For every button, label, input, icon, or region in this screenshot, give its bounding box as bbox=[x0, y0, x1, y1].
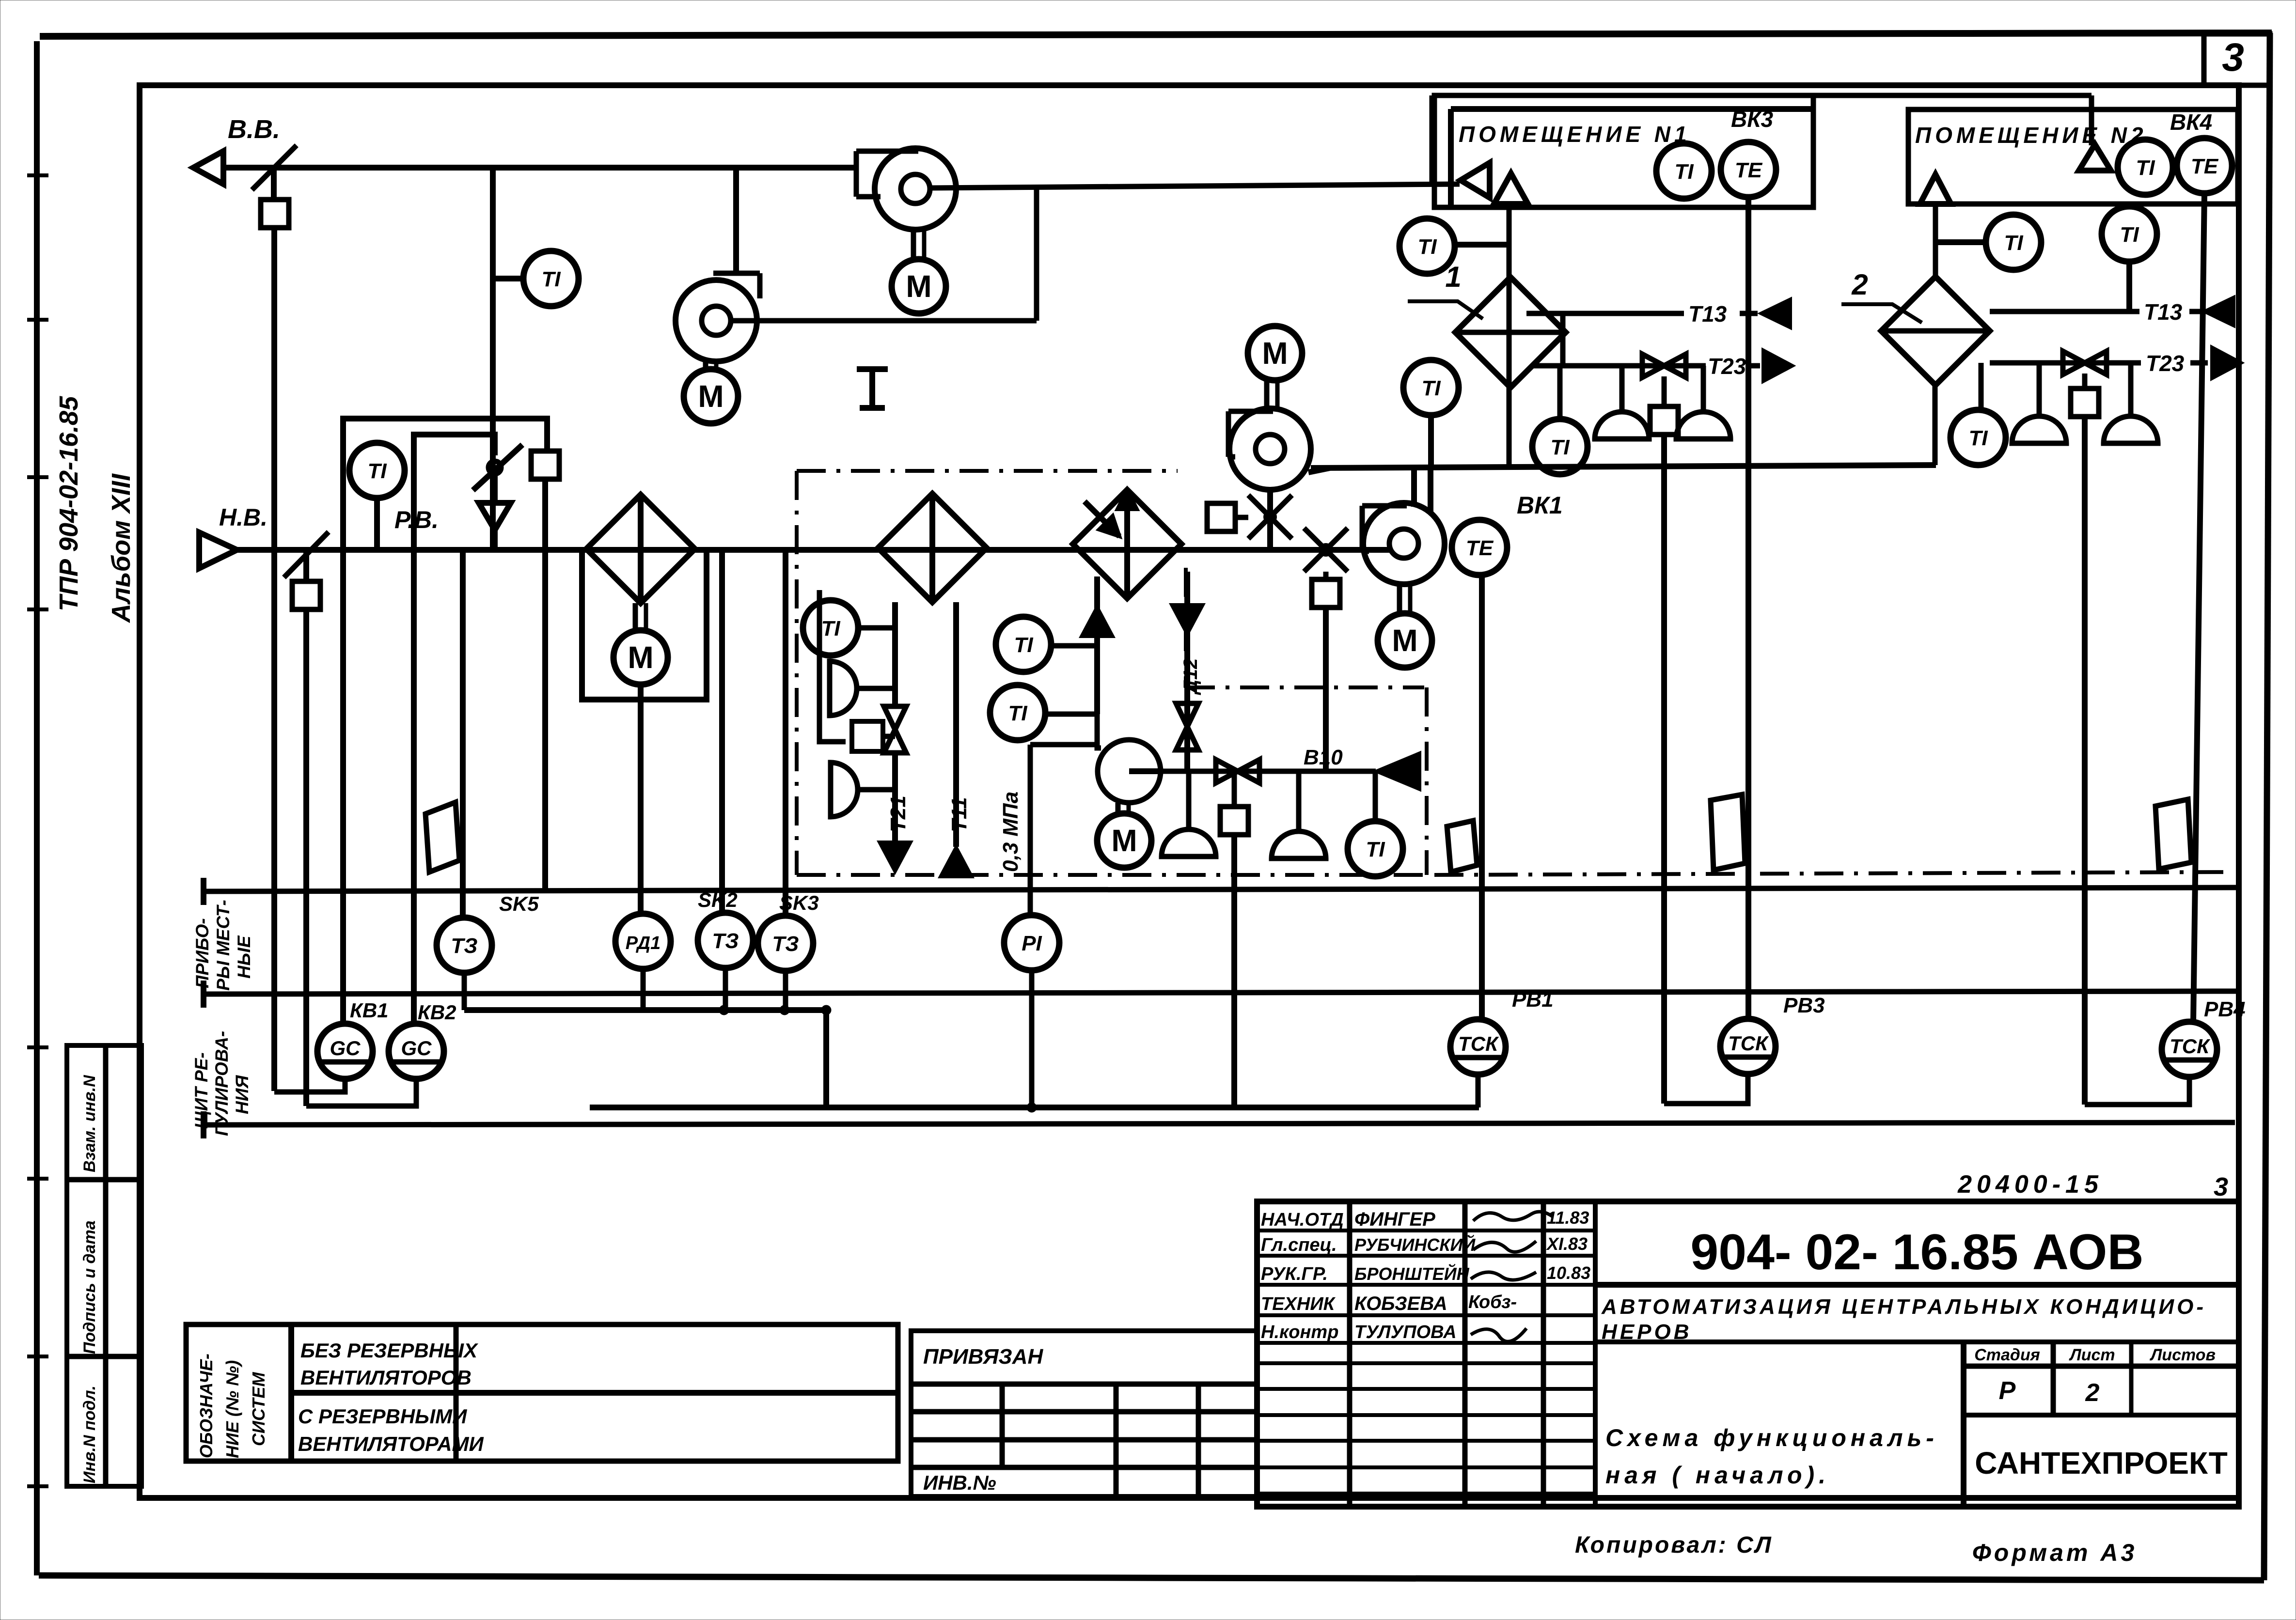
wire RV3 hookup bbox=[1664, 1074, 1748, 1104]
motor M VK1 bbox=[1397, 584, 1402, 612]
svg-text:НИЕ (№ №): НИЕ (№ №) bbox=[222, 1360, 242, 1458]
damper N.V. bbox=[284, 532, 329, 577]
svg-text:ТI: ТI bbox=[2120, 223, 2139, 247]
wire TE N1 down bbox=[1746, 197, 1751, 1019]
arrow V.V. left bbox=[193, 151, 223, 184]
svg-text:С РЕЗЕРВНЫМИ: С РЕЗЕРВНЫМИ bbox=[298, 1405, 467, 1428]
wire V.V. duct bbox=[223, 165, 859, 171]
svg-text:Формат А3: Формат А3 bbox=[1972, 1539, 2138, 1566]
rail instruments top bbox=[203, 888, 2236, 891]
svg-text:GC: GC bbox=[401, 1037, 432, 1059]
wire T13 line N1 bbox=[1526, 311, 1684, 316]
triangle R.V. down bbox=[479, 503, 511, 530]
fan V.V. no.2 bbox=[676, 280, 757, 361]
valve D12 bbox=[1176, 703, 1198, 727]
actuator box T23 N1 bbox=[1650, 406, 1678, 435]
horn B10 bbox=[1376, 753, 1420, 790]
wire RV1 hookup bbox=[1476, 1075, 1481, 1107]
linkage frame B bbox=[414, 435, 495, 550]
sensor TI under T23 N1 bbox=[1557, 366, 1563, 420]
arrow T13 N2 bbox=[2204, 297, 2234, 326]
rail instruments mid bbox=[203, 991, 2236, 994]
bell 2 N2 bbox=[2128, 363, 2134, 416]
svg-text:3: 3 bbox=[2214, 1172, 2228, 1201]
filter box bbox=[582, 550, 707, 700]
svg-text:Гл.спец.: Гл.спец. bbox=[1261, 1235, 1337, 1255]
sensor TE room N1 bbox=[1721, 142, 1776, 197]
svg-text:ТЕХНИК: ТЕХНИК bbox=[1261, 1294, 1336, 1314]
sensor TI cooler top bbox=[996, 617, 1051, 672]
actuator box X recirc bbox=[1207, 503, 1235, 531]
svg-text:ТI: ТI bbox=[2136, 156, 2155, 180]
svg-text:М: М bbox=[1111, 823, 1137, 858]
sensor TI B10 bbox=[1373, 771, 1378, 822]
sensor TI cooler in bbox=[990, 685, 1045, 740]
svg-text:В10: В10 bbox=[1304, 746, 1343, 769]
sensor TI on N.V. bbox=[349, 443, 405, 498]
svg-text:SK5: SK5 bbox=[499, 892, 539, 915]
svg-text:ТI: ТI bbox=[1417, 235, 1437, 259]
fan recirc bbox=[1229, 408, 1311, 490]
svg-text:SK2: SK2 bbox=[698, 888, 738, 911]
sensor GC KV1 bbox=[317, 1024, 373, 1079]
svg-text:Т21: Т21 bbox=[886, 795, 910, 832]
damper X recirc bbox=[1248, 495, 1292, 539]
motor M filter bbox=[633, 603, 638, 630]
grille triangle room N1 exhaust bbox=[1461, 163, 1490, 198]
sensor T3 SK5 bbox=[437, 918, 492, 973]
svg-text:Т11: Т11 bbox=[947, 797, 971, 832]
actuator box T23 N2 bbox=[2071, 389, 2099, 417]
sensor TCK RV1 bbox=[1450, 1019, 1506, 1075]
svg-text:РУК.ГР.: РУК.ГР. bbox=[1261, 1264, 1328, 1284]
svg-text:ТI: ТI bbox=[1421, 376, 1441, 400]
panel dashdot above rail bbox=[1434, 872, 2234, 875]
bell 2 N1 bbox=[1701, 366, 1706, 412]
svg-text:ТПР 904-02-16.85: ТПР 904-02-16.85 bbox=[54, 396, 83, 611]
sensor GC KV2 bbox=[389, 1024, 444, 1079]
svg-text:КОБЗЕВА: КОБЗЕВА bbox=[1354, 1293, 1447, 1314]
svg-text:ТСК: ТСК bbox=[2170, 1035, 2211, 1058]
wire RV4 hookup bbox=[2085, 1077, 2189, 1105]
wire to pump bbox=[1097, 714, 1101, 748]
svg-text:ПРИВЯЗАН: ПРИВЯЗАН bbox=[923, 1345, 1043, 1369]
bell 1 N1 bbox=[1620, 366, 1625, 412]
actuator box N.V. damper bbox=[303, 550, 309, 581]
svg-text:3: 3 bbox=[2222, 35, 2244, 79]
heater diamond 1 bbox=[878, 494, 987, 602]
sensor PD1 bbox=[615, 914, 671, 969]
sheet number box bbox=[2204, 34, 2270, 85]
fan V.V. no.1 bbox=[875, 148, 956, 230]
wire recirc discharge bbox=[1308, 468, 1330, 472]
sensor TI right of riser N2 bbox=[1986, 215, 2041, 270]
svg-text:ТI: ТI bbox=[1674, 160, 1694, 184]
heat exchanger diamond 2 bbox=[1881, 277, 1990, 385]
fan VK1 chute bbox=[1411, 468, 1417, 507]
svg-text:ТСК: ТСК bbox=[1728, 1032, 1769, 1055]
bell right 2 bbox=[831, 763, 858, 817]
arrow N.V. bbox=[199, 532, 237, 568]
valve T21 bbox=[884, 706, 906, 730]
svg-text:ВК1: ВК1 bbox=[1517, 492, 1563, 519]
motor M recirc fan bbox=[1248, 326, 1302, 380]
svg-text:ВЕНТИЛЯТОРАМИ: ВЕНТИЛЯТОРАМИ bbox=[298, 1433, 484, 1455]
svg-text:ПОМЕЩЕНИЕ N1: ПОМЕЩЕНИЕ N1 bbox=[1459, 122, 1691, 147]
page outer border top bbox=[40, 33, 2272, 36]
wire T21 pipe bbox=[892, 602, 898, 706]
rail instruments bottom bbox=[203, 1122, 2235, 1125]
sensor TI above T13 N2 bbox=[2102, 206, 2157, 262]
triangle supply room N1 bbox=[1494, 173, 1528, 204]
wire N.V. duct bbox=[237, 547, 1392, 553]
sensor TI left of riser bbox=[1400, 218, 1455, 274]
svg-text:Т23: Т23 bbox=[2146, 351, 2185, 376]
svg-text:ТI: ТI bbox=[367, 459, 387, 483]
group frame L bbox=[819, 590, 846, 742]
link parallelogram 4 bbox=[2155, 799, 2191, 869]
actuator box B10 bbox=[1232, 771, 1237, 807]
svg-text:ПОМЕЩЕНИЕ N2: ПОМЕЩЕНИЕ N2 bbox=[1915, 123, 2147, 148]
page outer border bottom bbox=[39, 1575, 2264, 1580]
svg-text:11.83: 11.83 bbox=[1547, 1208, 1589, 1228]
svg-text:РI: РI bbox=[1022, 932, 1042, 955]
svg-text:ТI: ТI bbox=[1008, 701, 1027, 725]
link parallelogram 3 bbox=[1711, 794, 1745, 870]
wire PI tap bbox=[1030, 742, 1096, 748]
svg-text:ТI: ТI bbox=[821, 617, 840, 640]
svg-text:РУБЧИНСКИЙ: РУБЧИНСКИЙ bbox=[1354, 1234, 1476, 1255]
wire V.V. damper down bbox=[271, 228, 277, 1091]
svg-text:Альбом XIII: Альбом XIII bbox=[107, 473, 136, 623]
sensor TI room N2 bbox=[2118, 140, 2173, 195]
inner frame bbox=[140, 85, 2239, 1498]
svg-text:НЕРОВ: НЕРОВ bbox=[1602, 1320, 1692, 1344]
svg-text:ТЕ: ТЕ bbox=[2191, 155, 2219, 178]
svg-text:ТI: ТI bbox=[1968, 426, 1988, 450]
bell 1 N2 bbox=[2037, 363, 2042, 416]
wire recirc intake bbox=[1267, 490, 1273, 550]
svg-text:Н.контр: Н.контр bbox=[1261, 1322, 1338, 1342]
panel boundary dashdot bbox=[795, 471, 799, 875]
systems table bbox=[186, 1324, 898, 1461]
grille triangle room N2 exhaust bbox=[2079, 144, 2111, 171]
svg-text:РЫ МЕСТ-: РЫ МЕСТ- bbox=[213, 900, 233, 991]
wire B10 bbox=[1161, 769, 1376, 774]
wire riser x1017 bbox=[490, 168, 496, 550]
wire N.V. damper down bbox=[303, 609, 309, 1106]
wire exhaust riser to N2 bbox=[1430, 95, 1435, 186]
svg-text:Стадия: Стадия bbox=[1974, 1346, 2040, 1364]
wire KV1 hookup bbox=[274, 1079, 345, 1092]
wire 20-30C sensor bbox=[783, 550, 788, 916]
svg-text:Кобз-: Кобз- bbox=[1468, 1292, 1517, 1312]
wire riser N2 up bbox=[1933, 204, 1938, 277]
svg-text:АВТОМАТИЗАЦИЯ ЦЕНТРАЛЬНЫХ К: АВТОМАТИЗАЦИЯ ЦЕНТРАЛЬНЫХ КОНДИЦИО- bbox=[1601, 1295, 2206, 1319]
svg-text:Т23: Т23 bbox=[1708, 354, 1746, 379]
wire bus SK bbox=[464, 1007, 826, 1013]
svg-text:ЩИТ РЕ-: ЩИТ РЕ- bbox=[191, 1052, 211, 1129]
room N1 box bbox=[1434, 95, 1813, 207]
svg-text:БРОНШТЕЙН: БРОНШТЕЙН bbox=[1354, 1263, 1470, 1284]
svg-text:ТI: ТI bbox=[2004, 231, 2023, 255]
svg-text:Копировал: СЛ: Копировал: СЛ bbox=[1575, 1532, 1773, 1558]
svg-text:САНТЕХПРОЕКТ: САНТЕХПРОЕКТ bbox=[1975, 1446, 2228, 1480]
link parallelogram 1 bbox=[425, 802, 459, 872]
svg-text:ТУЛУПОВА: ТУЛУПОВА bbox=[1354, 1322, 1457, 1342]
arrow T21 down bbox=[879, 842, 911, 872]
svg-text:ОБОЗНАЧЕ-: ОБОЗНАЧЕ- bbox=[196, 1354, 216, 1458]
sensor TI on x1017 bbox=[493, 276, 523, 281]
svg-text:10.83: 10.83 bbox=[1547, 1263, 1590, 1283]
title block grid bbox=[1257, 1201, 2239, 1507]
svg-text:РВ1: РВ1 bbox=[1512, 988, 1554, 1012]
arrow T23 N2 bbox=[2212, 347, 2242, 379]
room N2 box bbox=[1908, 109, 2238, 204]
link parallelogram 2 bbox=[1447, 821, 1477, 872]
svg-text:2: 2 bbox=[1851, 268, 1868, 301]
valve T23 N2 bbox=[2063, 351, 2085, 374]
wire T13 line N2 bbox=[1990, 309, 2139, 314]
svg-text:КВ2: КВ2 bbox=[418, 1001, 456, 1024]
fan VK1 bbox=[1363, 503, 1445, 584]
damper V.V. bbox=[252, 145, 297, 190]
wire SK5 sensor bbox=[460, 550, 466, 918]
actuator box frame A bbox=[531, 451, 559, 479]
svg-text:0,3 МПа: 0,3 МПа bbox=[999, 792, 1022, 872]
wire lower bus bbox=[590, 1105, 1479, 1110]
svg-text:ТЕ: ТЕ bbox=[1735, 158, 1763, 182]
wire X main down bbox=[1323, 607, 1329, 771]
svg-text:ПРИБО-: ПРИБО- bbox=[192, 918, 212, 988]
wire riser N1 bbox=[1507, 204, 1512, 465]
wire supply header bbox=[1311, 465, 1936, 468]
svg-text:СИСТЕМ: СИСТЕМ bbox=[249, 1371, 268, 1446]
svg-text:ная ( начало).: ная ( начало). bbox=[1605, 1462, 1830, 1489]
wire fan3 discharge bbox=[731, 318, 1037, 324]
wire 3C sensor bbox=[719, 550, 725, 913]
svg-text:904- 02- 16.85 АОВ: 904- 02- 16.85 АОВ bbox=[1690, 1224, 2143, 1280]
svg-text:НИЯ: НИЯ bbox=[232, 1075, 252, 1114]
sensor PI bbox=[1004, 915, 1059, 970]
wire cooler supply bbox=[1184, 572, 1190, 773]
actuator box heater valve bbox=[852, 721, 883, 751]
sensor TI heater group bbox=[803, 600, 858, 655]
wire riser N2 low bbox=[1933, 386, 1938, 465]
linkage frame A bbox=[343, 419, 547, 550]
left stamp box bbox=[67, 1045, 142, 1486]
sensor TCK RV4 bbox=[2162, 1022, 2217, 1077]
page outer border right bbox=[2264, 33, 2270, 1580]
pump bbox=[1098, 740, 1161, 803]
svg-text:В.В.: В.В. bbox=[228, 115, 280, 144]
sensor T3 SK3 bbox=[758, 916, 813, 971]
motor M fan V.V. no.2 bbox=[703, 359, 708, 369]
svg-text:Лист: Лист bbox=[2068, 1346, 2115, 1364]
sensor TE room N2 bbox=[2177, 138, 2232, 193]
wire cooler return bbox=[1094, 576, 1100, 714]
sensor TI on header bbox=[1403, 360, 1459, 415]
triangle supply room N2 bbox=[1920, 174, 1951, 204]
svg-text:ВЕНТИЛЯТОРОВ: ВЕНТИЛЯТОРОВ bbox=[300, 1366, 472, 1389]
svg-text:Д12: Д12 bbox=[1180, 658, 1201, 695]
svg-text:ТI: ТI bbox=[541, 267, 561, 291]
damper X main bbox=[1304, 528, 1348, 572]
bell B10 no.2 bbox=[1296, 771, 1302, 831]
svg-text:Подпись и дата: Подпись и дата bbox=[80, 1220, 99, 1354]
arrow T11 up bbox=[940, 847, 972, 877]
svg-text:НАЧ.ОТД: НАЧ.ОТД bbox=[1261, 1210, 1344, 1230]
wire fan discharge bbox=[930, 184, 1460, 188]
svg-text:Н.В.: Н.В. bbox=[219, 504, 267, 531]
svg-text:2: 2 bbox=[2085, 1379, 2100, 1407]
title signatures bbox=[1473, 1212, 1553, 1221]
svg-text:Схема функциональ-: Схема функциональ- bbox=[1605, 1424, 1938, 1451]
svg-text:БЕЗ РЕЗЕРВНЫХ: БЕЗ РЕЗЕРВНЫХ bbox=[300, 1339, 479, 1362]
arrow cooler up bbox=[1081, 607, 1113, 637]
svg-text:GC: GC bbox=[330, 1037, 361, 1059]
svg-text:М: М bbox=[1262, 336, 1288, 371]
svg-text:М: М bbox=[698, 379, 723, 414]
svg-text:ТСК: ТСК bbox=[1458, 1032, 1499, 1055]
wire T23 line N2 bbox=[1990, 360, 2141, 366]
filter diamond bbox=[586, 495, 695, 603]
wire frame A down bbox=[542, 479, 548, 891]
svg-text:Т13: Т13 bbox=[1688, 301, 1727, 327]
sensor TI under T13 N1 bbox=[1560, 313, 1566, 366]
sensor TI room N1 bbox=[1656, 143, 1712, 199]
wire T23 line N1 bbox=[1531, 363, 1706, 369]
svg-text:М: М bbox=[628, 640, 653, 675]
wire TE N2 down bbox=[2193, 193, 2204, 1022]
damper R.V. jalousie bbox=[488, 461, 501, 474]
svg-text:Инв.N подл.: Инв.N подл. bbox=[80, 1386, 99, 1483]
arrow T23 N1 bbox=[1763, 350, 1793, 382]
svg-text:ТЕ: ТЕ bbox=[1466, 536, 1494, 560]
bell B10 no.1 bbox=[1186, 771, 1192, 829]
svg-text:НЫЕ: НЫЕ bbox=[234, 935, 254, 979]
svg-text:SK3: SK3 bbox=[779, 891, 819, 914]
heat exchanger diamond 1 bbox=[1455, 277, 1566, 388]
sensor T3 SK2 bbox=[698, 913, 753, 968]
sensor TE VK1 bbox=[1452, 520, 1507, 575]
privyazan box bbox=[911, 1331, 1257, 1496]
wire fan3 intake bbox=[733, 168, 739, 275]
svg-text:РВ3: РВ3 bbox=[1783, 994, 1825, 1017]
svg-text:ХI.83: ХI.83 bbox=[1546, 1234, 1588, 1254]
svg-text:ГУЛИРОВА-: ГУЛИРОВА- bbox=[212, 1031, 232, 1136]
svg-text:Р.В.: Р.В. bbox=[394, 506, 439, 533]
panel boundary mark bbox=[869, 369, 875, 408]
cooler diamond 1 bbox=[1073, 490, 1181, 598]
wire TE VK1 down bbox=[1479, 575, 1485, 1019]
motor M fan V.V. no.1 bbox=[911, 229, 916, 259]
svg-text:ВК3: ВК3 bbox=[1731, 107, 1773, 132]
svg-text:РВ4: РВ4 bbox=[2204, 997, 2246, 1021]
motor M pump bbox=[1116, 803, 1121, 813]
svg-text:Т13: Т13 bbox=[2144, 299, 2183, 325]
valve T23 N1 bbox=[1642, 354, 1664, 377]
svg-text:М: М bbox=[906, 269, 931, 304]
sensor TI under T23 N2 bbox=[1979, 363, 1984, 409]
actuator box X main bbox=[1323, 572, 1329, 579]
sensor TCK RV3 bbox=[1720, 1019, 1776, 1074]
svg-text:ТI: ТI bbox=[1366, 838, 1385, 861]
page outer border left bbox=[34, 41, 40, 608]
actuator box V.V. damper bbox=[271, 168, 277, 199]
svg-text:ТЗ: ТЗ bbox=[712, 929, 739, 953]
svg-text:20400-15: 20400-15 bbox=[1957, 1170, 2103, 1199]
wire KV2 hookup bbox=[306, 1079, 416, 1106]
svg-text:Листов: Листов bbox=[2149, 1346, 2216, 1364]
svg-text:ТI: ТI bbox=[1550, 436, 1570, 459]
wire T11 pipe bbox=[953, 602, 959, 847]
svg-text:РД1: РД1 bbox=[626, 933, 660, 953]
svg-text:ВК4: ВК4 bbox=[2170, 109, 2212, 135]
arrow cooler down bbox=[1171, 605, 1203, 635]
svg-text:ТЗ: ТЗ bbox=[451, 934, 477, 958]
bell right 1 bbox=[830, 661, 857, 716]
rail left ticks bbox=[201, 878, 206, 905]
svg-text:М: М bbox=[1392, 623, 1417, 658]
svg-text:ФИНГЕР: ФИНГЕР bbox=[1354, 1209, 1435, 1230]
wire filter to PD1 bbox=[638, 685, 644, 914]
wire frame A left leg down bbox=[340, 550, 346, 1024]
valve B10 bbox=[1216, 760, 1238, 783]
svg-text:Взам. инв.N: Взам. инв.N bbox=[80, 1075, 99, 1172]
arrow T13 N1 bbox=[1761, 299, 1791, 328]
svg-text:ТЗ: ТЗ bbox=[772, 932, 799, 956]
svg-text:Р: Р bbox=[1999, 1377, 2016, 1405]
svg-text:ТI: ТI bbox=[1014, 633, 1033, 657]
svg-text:КВ1: КВ1 bbox=[350, 999, 389, 1022]
svg-text:ИНВ.№: ИНВ.№ bbox=[923, 1471, 996, 1494]
wire frame B down bbox=[411, 550, 417, 1024]
